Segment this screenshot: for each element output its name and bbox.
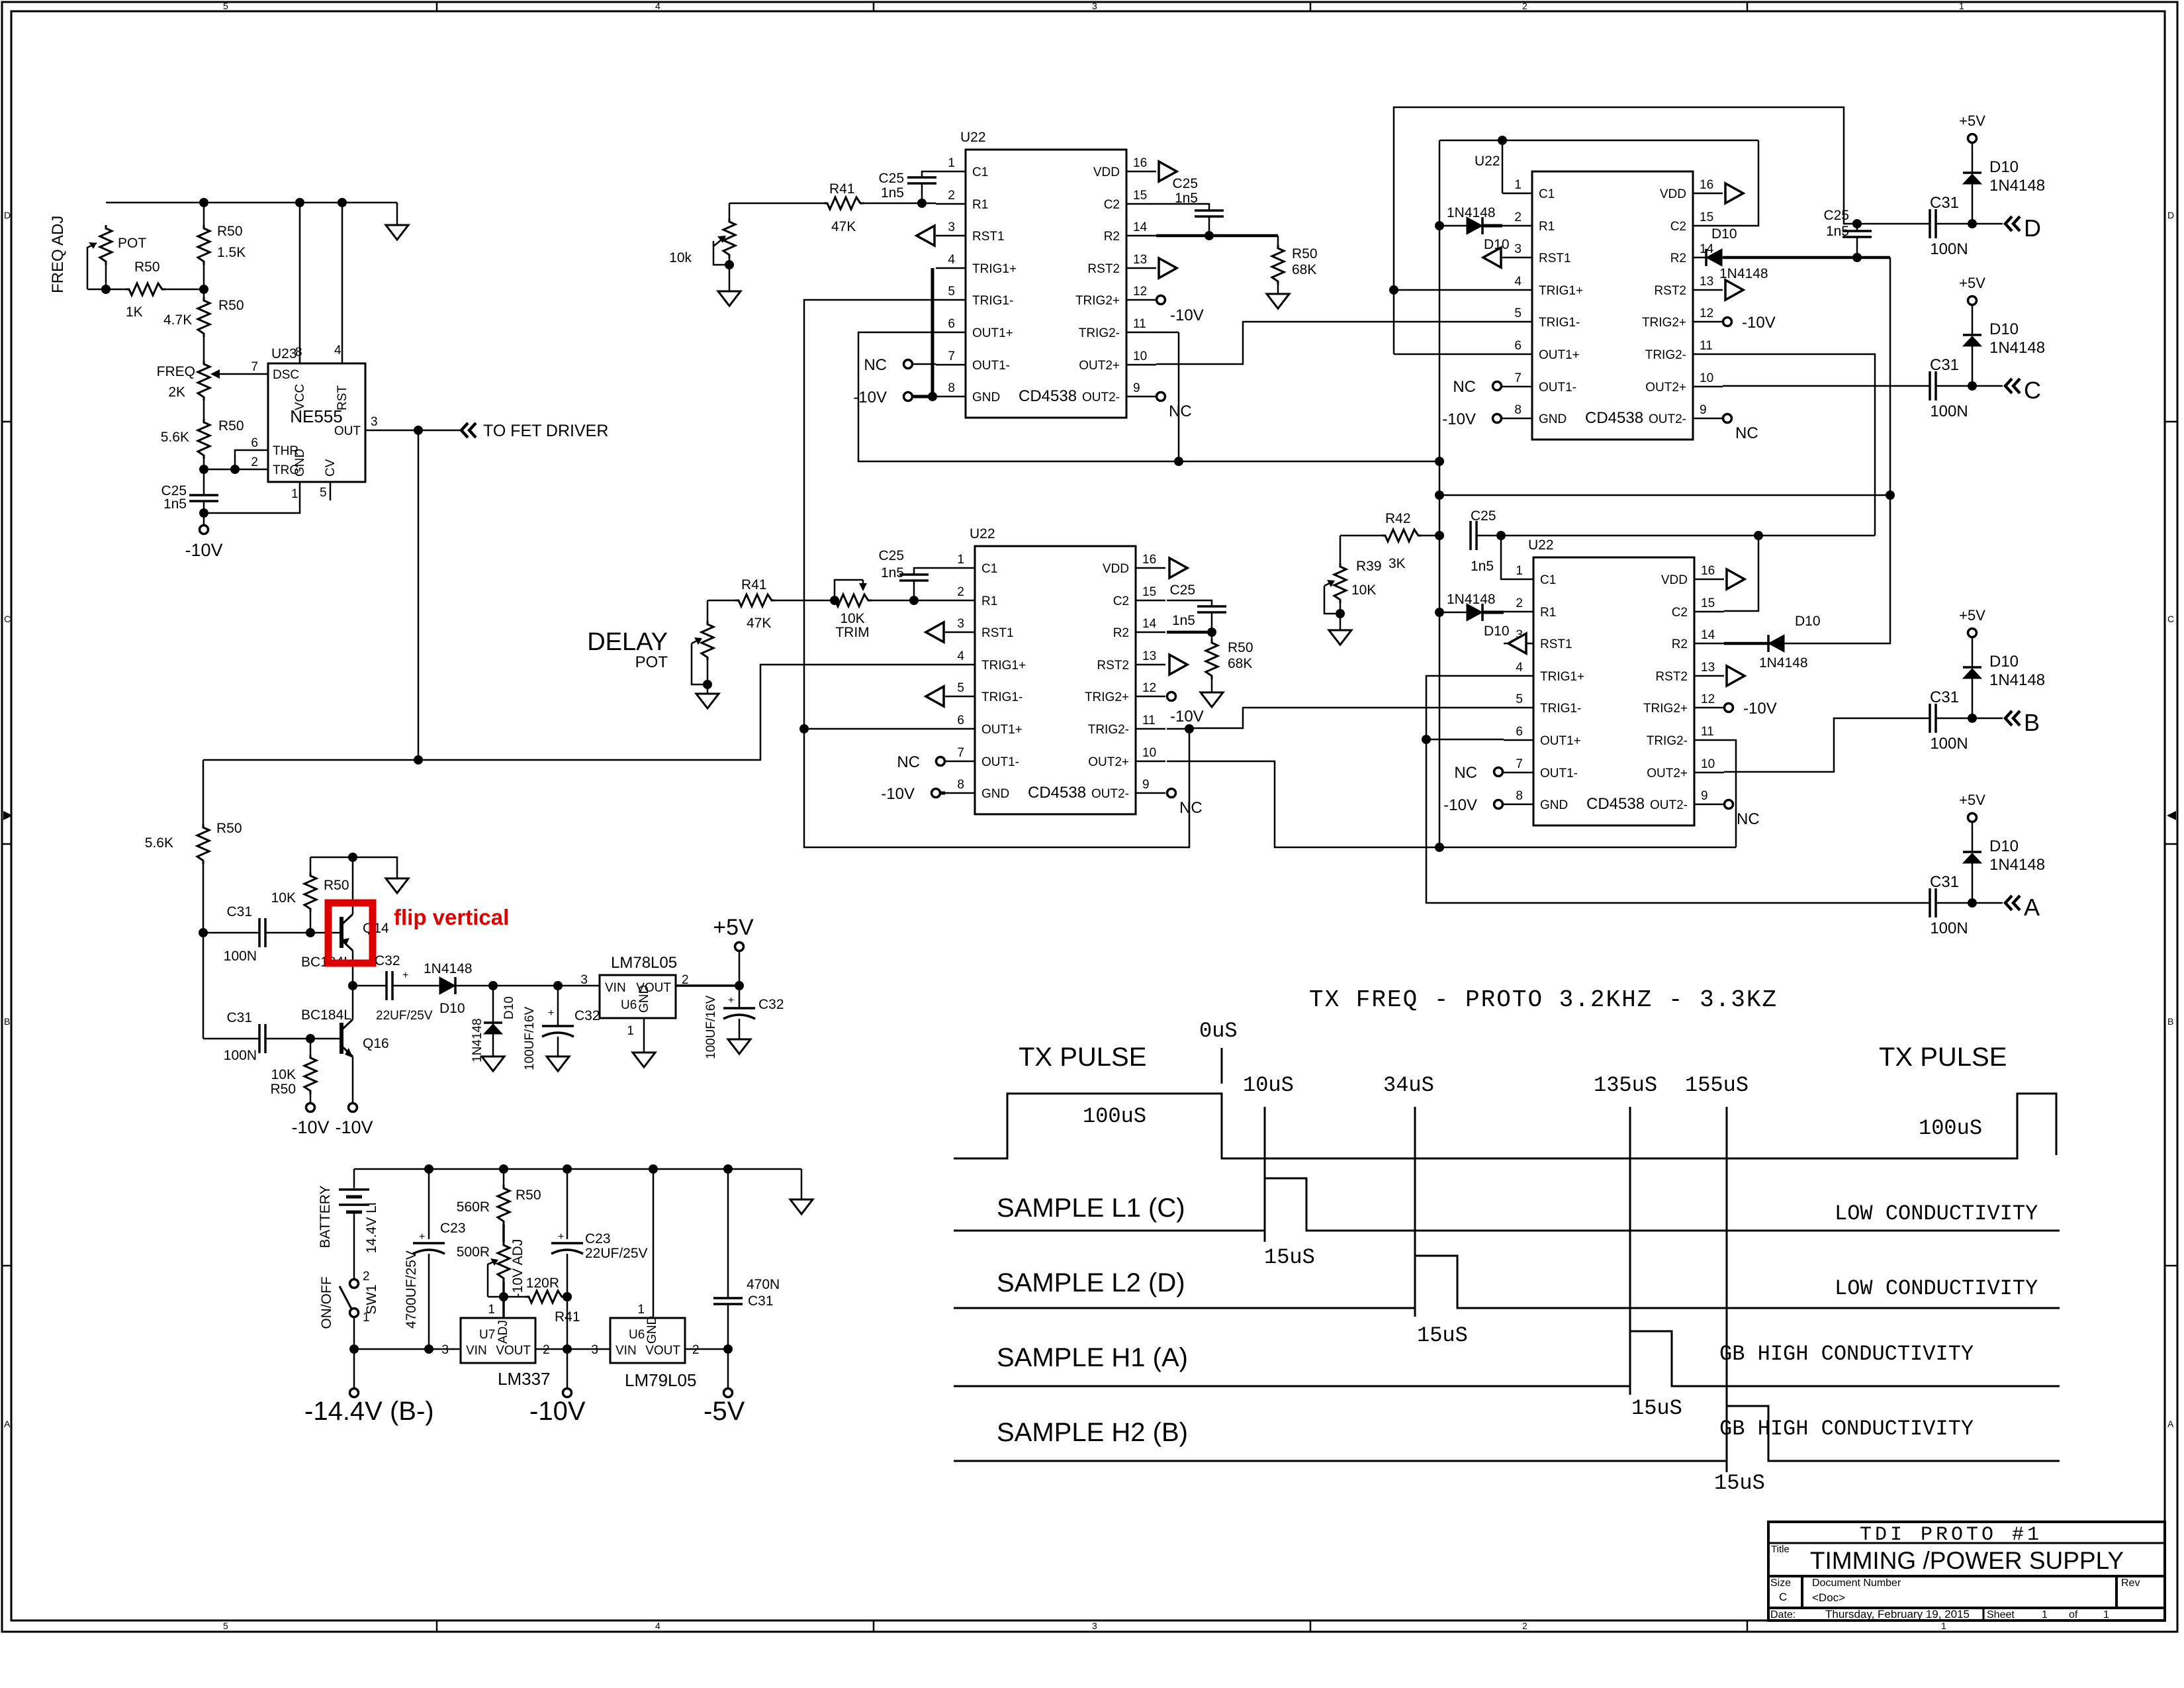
svg-text:GND: GND: [637, 985, 651, 1013]
svg-text:Sheet: Sheet: [1987, 1609, 2015, 1620]
svg-text:D10: D10: [1989, 653, 2019, 671]
wire GND pin1: [204, 482, 300, 513]
svg-text:C: C: [4, 614, 11, 624]
svg-text:1n5: 1n5: [1826, 224, 1849, 239]
svg-text:1: 1: [627, 1024, 634, 1038]
svg-text:U23: U23: [271, 346, 297, 361]
svg-text:D10: D10: [439, 1001, 465, 1016]
svg-text:2: 2: [543, 1343, 550, 1357]
svg-text:VOUT: VOUT: [645, 1344, 680, 1358]
arrow VDD (U22#2 pin16): [1725, 183, 1743, 203]
svg-text:U7: U7: [479, 1328, 495, 1342]
tick 135uS: [1629, 1107, 1631, 1395]
svg-text:4: 4: [655, 1, 660, 11]
svg-text:-10V: -10V: [291, 1117, 329, 1137]
frame center arrow right: [2167, 811, 2176, 820]
svg-text:3: 3: [371, 415, 378, 429]
svg-text:Date:: Date:: [1770, 1609, 1796, 1620]
svg-text:R50: R50: [270, 1082, 296, 1097]
svg-text:155uS: 155uS: [1685, 1073, 1749, 1098]
svg-text:+5V: +5V: [713, 915, 754, 940]
wire switch to VIN rail: [354, 1317, 461, 1349]
tick 155uS: [1726, 1107, 1728, 1472]
junction Q14 base: [306, 928, 315, 937]
wire top line to C2 loop U22#4: [1501, 535, 1875, 537]
svg-text:100UF/16V: 100UF/16V: [523, 1007, 537, 1070]
wire OUT2+ U22#4 to B output: [1724, 718, 1930, 772]
transistor Q14 BC184L: [310, 857, 353, 986]
svg-text:8: 8: [295, 346, 302, 359]
junction B: [1968, 714, 1977, 723]
resistor R50 1.5K: [203, 203, 205, 225]
svg-text:R50: R50: [216, 821, 242, 836]
svg-text:C25: C25: [878, 171, 904, 186]
ground: [386, 225, 408, 240]
wire diode feed vertical right: [1784, 258, 1890, 643]
svg-text:NC: NC: [1169, 402, 1192, 420]
svg-text:100N: 100N: [224, 949, 257, 964]
svg-text:-10V: -10V: [335, 1117, 373, 1137]
svg-text:VIN: VIN: [466, 1344, 487, 1358]
svg-text:ON/OFF: ON/OFF: [319, 1276, 334, 1329]
potentiometer 10K TRIM: [872, 600, 945, 602]
zone letters left: [4, 210, 11, 1429]
junction A: [1968, 898, 1977, 908]
svg-text:GB HIGH CONDUCTIVITY: GB HIGH CONDUCTIVITY: [1719, 1417, 1974, 1441]
junction Q14/Q16 collectors: [348, 981, 357, 990]
svg-text:R39: R39: [1356, 559, 1382, 574]
svg-text:100uS: 100uS: [1919, 1116, 1982, 1141]
junction pot bottom: [101, 285, 111, 294]
svg-text:-10V: -10V: [529, 1397, 586, 1426]
wire TRIG1+/OUT1+ to A output (U22#4): [1426, 676, 1930, 903]
svg-text:LM78L05: LM78L05: [611, 954, 677, 972]
svg-text:NC: NC: [1453, 378, 1476, 396]
arrow RST2 (U22#1 pin13): [1159, 258, 1177, 278]
svg-text:C32: C32: [574, 1008, 600, 1023]
svg-text:FREQ ADJ: FREQ ADJ: [49, 216, 67, 293]
switch SW1 ON/OFF: [350, 1280, 359, 1288]
svg-text:R50: R50: [217, 224, 243, 239]
svg-text:D: D: [2024, 214, 2041, 242]
svg-text:+: +: [728, 995, 734, 1006]
svg-text:2: 2: [1522, 1620, 1527, 1631]
potentiometer FREQ ADJ R50: [100, 225, 112, 265]
capacitor C31 100N (upper): [203, 932, 259, 934]
wire TRIG1- U22#1 from OUT1+ U22#3: [804, 300, 1189, 847]
svg-text:NC: NC: [897, 753, 920, 771]
capacitor C31 100N (C): [1930, 371, 1936, 400]
svg-text:100N: 100N: [1930, 240, 1968, 258]
svg-text:560R: 560R: [457, 1199, 490, 1215]
capacitor C32 100UF/16V (output): [739, 986, 741, 1008]
battery BATTERY 14.4V Li: [353, 1169, 355, 1188]
svg-text:1N4148: 1N4148: [1447, 205, 1496, 220]
svg-text:100UF/16V: 100UF/16V: [704, 996, 718, 1059]
svg-text:SAMPLE H1 (A): SAMPLE H1 (A): [997, 1343, 1188, 1372]
svg-text:R41: R41: [741, 577, 767, 592]
svg-text:100N: 100N: [1930, 919, 1968, 937]
svg-text:B: B: [2167, 1016, 2173, 1027]
terminal -10V (U22#4 pin8): [1503, 803, 1504, 806]
wire CV pin5 stub: [330, 482, 332, 500]
wire THR to TRG: [235, 450, 268, 469]
svg-text:C31: C31: [1930, 688, 1959, 706]
svg-text:-10V: -10V: [1443, 796, 1477, 814]
wire OUT pin3 to FET driver: [365, 430, 460, 432]
diode D10 1N4148 (series): [439, 977, 455, 994]
resistor R50 5.6K: [203, 400, 205, 419]
svg-text:4.7K: 4.7K: [163, 312, 192, 328]
svg-text:SAMPLE L1 (C): SAMPLE L1 (C): [997, 1194, 1185, 1223]
svg-text:5: 5: [320, 486, 327, 500]
svg-text:VOUT: VOUT: [496, 1344, 531, 1358]
svg-text:B: B: [4, 1016, 10, 1027]
wire DSC pin7 to pot wiper: [218, 373, 268, 375]
svg-text:1K: 1K: [126, 305, 143, 320]
svg-text:10uS: 10uS: [1243, 1073, 1294, 1098]
terminal NC (U22#4 pin7): [1494, 768, 1503, 776]
wire ground drop: [396, 203, 398, 225]
wire TRIG1- U22#4 from net beta: [1189, 708, 1504, 728]
svg-text:C23: C23: [585, 1231, 611, 1246]
waveform sample L2: [954, 1256, 2060, 1308]
capacitor C25 1n5 (U22#3 C1): [914, 568, 945, 575]
resistor R50 5.6K (driver): [203, 760, 205, 824]
junction divider top: [199, 285, 208, 294]
zone numbers top: [223, 1, 1964, 11]
svg-text:U6: U6: [629, 1328, 645, 1342]
junction Q16 base: [306, 1034, 315, 1043]
svg-text:1N4148: 1N4148: [1989, 671, 2045, 689]
svg-text:OUT: OUT: [334, 424, 361, 438]
svg-text:C31: C31: [226, 1010, 252, 1025]
regulator U7 LM337: [461, 1318, 535, 1363]
junction net to U22#2/#4 R1 feed: [1435, 457, 1444, 466]
svg-text:1: 1: [637, 1303, 645, 1317]
junction C: [1968, 381, 1977, 391]
svg-text:47K: 47K: [831, 219, 856, 234]
svg-text:68K: 68K: [1292, 262, 1316, 277]
wire U7 VOUT to -10V node: [535, 1348, 610, 1350]
svg-text:5: 5: [223, 1, 228, 11]
svg-text:Q16: Q16: [363, 1036, 389, 1051]
svg-text:U22: U22: [1475, 154, 1500, 169]
terminal -10V: [200, 526, 208, 534]
svg-text:VIN: VIN: [615, 1344, 637, 1358]
svg-text:2K: 2K: [168, 385, 185, 400]
zone numbers bottom: [223, 1620, 1946, 1631]
annotation red box flip vertical: [328, 903, 373, 963]
svg-text:A: A: [4, 1419, 11, 1429]
resistor R50 68K (U22#3 R2): [1167, 631, 1212, 634]
svg-text:14.4V Li: 14.4V Li: [364, 1202, 379, 1253]
svg-text:LM337: LM337: [498, 1369, 551, 1389]
svg-text:D10: D10: [502, 996, 516, 1019]
svg-text:500R: 500R: [457, 1244, 490, 1260]
svg-text:flip vertical: flip vertical: [394, 905, 509, 929]
wire OUT1+ U22#3 (to junction): [804, 728, 945, 730]
svg-text:100N: 100N: [1930, 735, 1968, 753]
capacitor C25 1n5 (U22#1 C1): [922, 171, 936, 177]
arrow VDD (U22#3 pin16): [1169, 558, 1187, 578]
node TO FET DRIVER: [461, 423, 476, 438]
wire C1 drop (U22#4): [1501, 536, 1504, 579]
transistor Q16 BC184L: [310, 986, 353, 1103]
capacitor C25 1n5 (U22#3 C2): [1167, 600, 1212, 606]
svg-text:D10: D10: [1795, 614, 1821, 629]
svg-text:100uS: 100uS: [1083, 1104, 1146, 1129]
resistor R50 4.7K: [203, 289, 205, 297]
zone tick marks left: [2, 422, 11, 1266]
svg-text:ADJ: ADJ: [496, 1320, 510, 1344]
svg-text:TDI PROTO #1: TDI PROTO #1: [1860, 1524, 2042, 1546]
wire RST pin4 to rail: [341, 203, 343, 363]
capacitor C23 22UF/25V: [567, 1169, 569, 1239]
frame center arrow left: [3, 811, 13, 820]
diode D10 1N4148 (A pullup): [1972, 863, 1974, 903]
arrow RST2 (U22#4 pin13): [1727, 666, 1745, 686]
wire C1 loop (U22#2): [1502, 140, 1504, 193]
terminal NC (U22#1 pin7): [913, 363, 936, 365]
svg-text:1n5: 1n5: [1175, 191, 1198, 206]
svg-text:10K: 10K: [271, 890, 296, 906]
terminal +5V: [739, 951, 741, 986]
svg-text:-10V: -10V: [1743, 700, 1777, 718]
junction rail R50 top: [199, 198, 208, 207]
wire TRIG1+ to GND pin (U22#1): [931, 268, 934, 397]
svg-text:1N4148: 1N4148: [471, 1018, 484, 1062]
svg-text:1N4148: 1N4148: [1989, 856, 2045, 874]
capacitor C31 100N (A): [1930, 888, 1936, 917]
wire trigger bus to TRIG1+ of U22 delay: [203, 665, 945, 760]
svg-text:LOW CONDUCTIVITY: LOW CONDUCTIVITY: [1835, 1201, 2038, 1226]
svg-text:-10V ADJ: -10V ADJ: [510, 1239, 525, 1298]
svg-text:135uS: 135uS: [1594, 1073, 1657, 1098]
svg-text:1n5: 1n5: [881, 565, 904, 581]
arrow VDD (U22#1 pin16): [1159, 162, 1177, 181]
waveform sample H2: [954, 1406, 2060, 1461]
svg-text:C: C: [1779, 1591, 1787, 1603]
svg-text:Document Number: Document Number: [1812, 1577, 1901, 1589]
svg-text:5.6K: 5.6K: [145, 835, 173, 851]
svg-text:SAMPLE L2 (D): SAMPLE L2 (D): [997, 1268, 1185, 1297]
wire pot bottom: [105, 265, 107, 289]
node A: [2005, 896, 2020, 910]
svg-text:FREQ: FREQ: [157, 364, 195, 379]
wire U6 GND pin to rail: [653, 1169, 655, 1318]
svg-text:15uS: 15uS: [1631, 1396, 1682, 1421]
svg-text:C32: C32: [375, 953, 400, 968]
capacitor C31 100N (D): [1930, 209, 1936, 238]
wire OUT2+ U22#2 to C output: [1723, 385, 1930, 387]
terminal NC (U22#4 pin9): [1725, 800, 1733, 809]
svg-text:LOW CONDUCTIVITY: LOW CONDUCTIVITY: [1835, 1276, 2038, 1301]
svg-text:C25: C25: [1471, 508, 1496, 524]
svg-text:D: D: [4, 210, 11, 220]
svg-text:R50: R50: [1228, 640, 1253, 655]
svg-text:4: 4: [334, 344, 341, 357]
resistor R50 560R: [503, 1169, 505, 1185]
terminal -5V: [727, 1349, 729, 1388]
terminal -10V (U22#3 pin12): [1167, 692, 1176, 701]
svg-text:-10V: -10V: [1442, 410, 1476, 428]
svg-text:120R: 120R: [526, 1276, 559, 1291]
potentiometer 10k (U22#1 R1): [729, 203, 731, 218]
svg-text:-14.4V (B-): -14.4V (B-): [304, 1397, 434, 1426]
terminal NC (U22#2 pin9): [1723, 414, 1732, 423]
svg-text:D: D: [2167, 210, 2174, 220]
svg-text:7: 7: [251, 360, 258, 374]
svg-text:<Doc>: <Doc>: [1812, 1591, 1845, 1604]
svg-text:10K: 10K: [271, 1067, 296, 1082]
svg-text:R50: R50: [218, 418, 244, 434]
svg-text:A: A: [2024, 894, 2040, 921]
zone tick marks right: [2165, 422, 2177, 1266]
svg-text:1N4148: 1N4148: [424, 961, 473, 976]
terminal +5V (C): [1968, 297, 1977, 305]
tick 10uS: [1264, 1107, 1266, 1242]
svg-text:3: 3: [1092, 1620, 1097, 1631]
svg-text:R50: R50: [324, 878, 349, 893]
svg-text:VIN: VIN: [605, 981, 626, 995]
junction TRG: [199, 465, 208, 474]
terminal +5V (D): [1968, 134, 1977, 143]
arrow RST1 (U22#1 pin3): [917, 226, 934, 246]
svg-text:22UF/25V: 22UF/25V: [585, 1246, 648, 1261]
terminal -10V (psu): [567, 1349, 569, 1388]
svg-text:C: C: [2167, 614, 2174, 624]
resistor R41 47K (delay): [775, 600, 835, 602]
svg-text:NC: NC: [1737, 810, 1760, 828]
svg-text:+: +: [402, 970, 408, 981]
diode D10 1N4148 (B pullup): [1972, 679, 1974, 718]
tick 0uS: [1221, 1048, 1223, 1084]
svg-text:R50: R50: [1292, 246, 1318, 261]
resistor R50 1K: [87, 289, 126, 291]
svg-text:-5V: -5V: [704, 1397, 745, 1426]
node B: [2005, 711, 2020, 726]
terminal -14.4V (B-): [353, 1349, 355, 1388]
svg-text:47K: 47K: [747, 616, 771, 631]
wire net OUT1+/TRIG2- U22#1: [858, 332, 1439, 461]
svg-text:NC: NC: [1454, 764, 1477, 782]
ground (Q14): [386, 878, 408, 893]
svg-text:34uS: 34uS: [1383, 1073, 1434, 1098]
svg-text:NC: NC: [1735, 424, 1758, 442]
svg-text:Thursday, February 19, 2015: Thursday, February 19, 2015: [1825, 1608, 1970, 1620]
capacitor C25 1n5: [203, 469, 205, 495]
wire NE555 OUT down to trigger bus: [418, 430, 420, 760]
svg-text:3: 3: [1092, 1, 1097, 11]
potentiometer R39 10K: [1340, 536, 1342, 563]
svg-text:470N: 470N: [747, 1277, 780, 1292]
svg-text:TX FREQ - PROTO 3.2KHZ - 3.3KZ: TX FREQ - PROTO 3.2KHZ - 3.3KZ: [1309, 986, 1778, 1013]
arrow RST2 (U22#2 pin13): [1725, 280, 1743, 300]
arrow VDD (U22#4 pin16): [1727, 569, 1745, 589]
capacitor C25 1n5 (U22#2): [1856, 224, 1858, 231]
svg-text:TO FET DRIVER: TO FET DRIVER: [483, 422, 608, 440]
resistor R41 47K: [864, 203, 936, 205]
potentiometer 500R -10V ADJ: [502, 1225, 505, 1242]
svg-text:+5V: +5V: [1959, 113, 1985, 129]
wire bus 748: [1439, 494, 1890, 496]
svg-text:1: 1: [488, 1303, 495, 1317]
resistor R50 68K (U22#1 R2): [1156, 234, 1278, 238]
tick 34uS: [1414, 1107, 1416, 1317]
svg-text:SW1: SW1: [364, 1284, 379, 1315]
IC U22 CD4538 #1: [936, 150, 1156, 418]
svg-text:TIMMING /POWER SUPPLY: TIMMING /POWER SUPPLY: [1810, 1547, 2124, 1574]
svg-text:GB HIGH CONDUCTIVITY: GB HIGH CONDUCTIVITY: [1719, 1342, 1974, 1366]
svg-text:3: 3: [591, 1343, 598, 1357]
resistor R50 10K (Q14 base): [310, 857, 312, 872]
capacitor C25 1n5 (U22#4 R42): [1471, 521, 1477, 550]
svg-text:LM79L05: LM79L05: [625, 1370, 696, 1390]
svg-text:+5V: +5V: [1959, 792, 1985, 808]
svg-text:4700UF/25V: 4700UF/25V: [404, 1250, 419, 1329]
svg-text:C25: C25: [878, 548, 904, 563]
wire top rail: [354, 1168, 801, 1170]
svg-text:2: 2: [251, 455, 258, 469]
svg-text:1n5: 1n5: [1471, 559, 1494, 574]
svg-text:15uS: 15uS: [1714, 1471, 1765, 1495]
terminal -10V (U22#2 pin12): [1723, 318, 1732, 326]
resistor R42 3K: [1340, 535, 1382, 537]
capacitor C25 1n5 (U22#1 C2): [1156, 204, 1209, 211]
wire TRG pin2: [204, 469, 268, 471]
diode D10 1N4148 (U22#4 R2): [1724, 642, 1784, 645]
zone tick marks bottom: [437, 1620, 1747, 1632]
capacitor C23 4700UF/25V: [428, 1169, 430, 1239]
svg-text:1n5: 1n5: [1172, 613, 1195, 628]
svg-text:R41: R41: [829, 181, 855, 197]
svg-text:Rev: Rev: [2121, 1577, 2140, 1589]
IC U22 CD4538 #2: [1502, 171, 1723, 440]
svg-text:10K: 10K: [1351, 583, 1376, 598]
svg-text:R50: R50: [134, 259, 160, 275]
svg-text:3: 3: [580, 973, 588, 987]
svg-text:-10V: -10V: [881, 785, 915, 803]
svg-text:of: of: [2069, 1609, 2078, 1620]
svg-text:TX PULSE: TX PULSE: [1019, 1043, 1146, 1072]
capacitor C31 100N (B): [1930, 704, 1936, 733]
diode D10 1N4148 (U22#4 R1): [1439, 612, 1467, 614]
svg-text:1N4148: 1N4148: [1759, 655, 1808, 671]
svg-text:10k: 10k: [669, 250, 692, 265]
svg-text:TX PULSE: TX PULSE: [1879, 1043, 2007, 1072]
svg-text:U6: U6: [621, 998, 637, 1012]
svg-text:D10: D10: [1989, 837, 2019, 855]
svg-text:C25: C25: [1169, 583, 1195, 598]
diode D10 1N4148 (U22#2 R2): [1723, 256, 1890, 259]
svg-text:4: 4: [655, 1620, 660, 1631]
svg-text:U22: U22: [960, 130, 986, 145]
junction C25 bottom / GND pin1: [199, 508, 208, 518]
svg-text:1: 1: [291, 487, 298, 501]
svg-text:BC184L: BC184L: [301, 1008, 351, 1023]
svg-text:SAMPLE H2 (B): SAMPLE H2 (B): [997, 1418, 1188, 1447]
svg-text:2: 2: [1522, 1, 1527, 11]
terminal -10V (Q16 emitter): [349, 1103, 357, 1112]
svg-text:POT: POT: [118, 236, 146, 251]
terminal -10V (U22#1 pin12): [1157, 296, 1165, 305]
svg-text:1N4148: 1N4148: [1989, 177, 2045, 195]
svg-text:POT: POT: [635, 653, 668, 671]
svg-text:R50: R50: [218, 298, 244, 313]
svg-text:10K: 10K: [840, 611, 864, 626]
terminal NC (U22#3 pin9): [1167, 789, 1176, 798]
